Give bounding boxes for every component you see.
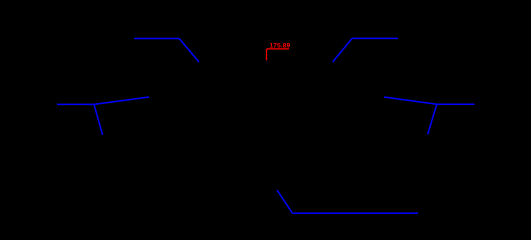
wire: top-right horizontal segment: [352, 37, 398, 39]
wire: bottom diagonal down-right: [277, 190, 293, 213]
wire: left-middle rising branch: [94, 97, 149, 104]
wire: left-middle horizontal segment: [57, 103, 94, 105]
wire: top-left horizontal segment: [134, 38, 179, 40]
svg-text:175.89: 175.89: [270, 43, 291, 50]
dimension leader horizontal underline: [267, 48, 290, 50]
wire: right-middle descending branch: [428, 104, 437, 134]
dimension leader vertical line: [266, 49, 268, 60]
wire: right-middle falling segment: [384, 97, 437, 104]
wire: top-right diagonal up-right: [333, 38, 353, 62]
wire: right-middle horizontal segment: [437, 103, 475, 105]
wire: bottom horizontal segment: [293, 212, 419, 214]
wire: top-left diagonal down-right: [179, 39, 199, 63]
wire: left-middle descending branch: [94, 104, 103, 135]
